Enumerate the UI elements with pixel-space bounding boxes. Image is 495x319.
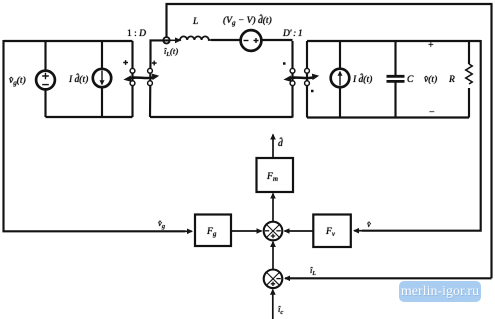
- label 1 : D: [127, 29, 146, 39]
- transformer T2 variable-ratio arrow: [283, 74, 319, 82]
- label dhat: [278, 136, 283, 149]
- label Fv: [325, 227, 336, 238]
- S1 minus sign left: [265, 230, 269, 232]
- svg-text:v̂(t): v̂(t): [424, 74, 437, 85]
- wire: dhat output arrow: [272, 135, 274, 159]
- svg-text:v̂g(t): v̂g(t): [9, 75, 26, 87]
- svg-text:d̂: d̂: [278, 136, 283, 149]
- label Fg: [206, 227, 217, 238]
- source (Vg - V) dhat(t): [211, 30, 293, 51]
- source v_g : independent voltage source vhat_g(t): [36, 41, 55, 117]
- wire: output top rail: [307, 40, 481, 42]
- wire: Fg output to summer S1: [231, 230, 262, 232]
- label (Vg - V) dhat(t): [223, 13, 272, 27]
- resistor R: [466, 41, 472, 118]
- wire + arrow after node: [170, 39, 181, 41]
- svg-text:I d̂(t): I d̂(t): [68, 72, 88, 85]
- label C: [407, 75, 414, 85]
- label I dhat(t): [68, 72, 88, 85]
- label vhat(t): [424, 74, 437, 85]
- T1 polarity marks: [123, 60, 156, 65]
- svg-text:I d̂(t): I d̂(t): [352, 72, 372, 85]
- label ihat_L: [310, 265, 316, 277]
- wire: vg sense arrow into Fg: [185, 230, 192, 232]
- label L: [192, 17, 198, 27]
- wire: iL feedback into S2: [285, 277, 492, 279]
- svg-text:R: R: [448, 75, 455, 85]
- svg-text:îc: îc: [278, 304, 283, 316]
- source I dhat(t) (output current source, arrow up): [331, 41, 350, 118]
- wire: vhat sense (right vertical to Fv): [362, 40, 481, 231]
- svg-text:îL: îL: [310, 265, 316, 277]
- S1 minus sign right: [276, 230, 280, 232]
- S2 plus sign bottom: [271, 282, 275, 286]
- label ihat_L(t): [164, 46, 178, 58]
- transformer T1 1:D secondary winding: [148, 40, 170, 117]
- capacitor C: [387, 41, 405, 118]
- watermark merlin-igor.ru: [399, 281, 481, 302]
- node iL with sense wire going up and across the top: [163, 4, 491, 278]
- wire: input top rail: [4, 40, 133, 42]
- transformer T2 D':1 secondary winding: [305, 41, 310, 118]
- svg-text:+: +: [428, 40, 434, 51]
- summer S2 (lower summing junction): [264, 270, 283, 289]
- wire: output bottom rail: [307, 116, 469, 118]
- transformer T1 1:D primary winding: [130, 41, 135, 117]
- wire: upper summer to Fm: [272, 194, 274, 223]
- inductor L: [178, 36, 211, 40]
- transformer T1 variable-ratio arrow: [123, 74, 159, 82]
- label I dhat(t) output: [352, 72, 372, 85]
- label ihat_c: [278, 304, 283, 316]
- svg-text:îL(t): îL(t): [164, 46, 178, 58]
- block Fm: [257, 158, 294, 192]
- T2 polarity marks: [283, 64, 314, 92]
- label vhat: [367, 219, 371, 229]
- transformer T2 D':1 primary winding: [290, 41, 295, 118]
- source I dhat(t) (input current source, arrow down): [93, 41, 111, 117]
- svg-text:−: −: [429, 107, 435, 118]
- wire: v_g sense wire (left vertical down to Fg input): [4, 40, 186, 231]
- svg-text:(Vg − V) d̂(t): (Vg − V) d̂(t): [223, 13, 272, 27]
- svg-text:L: L: [192, 17, 198, 27]
- summer S1 (upper summing junction): [264, 222, 283, 241]
- svg-text:1 : D: 1 : D: [127, 29, 146, 39]
- wire: Fv output to summer S1: [285, 230, 314, 232]
- output minus mark: [429, 107, 435, 118]
- wire: input bottom rail: [46, 116, 133, 118]
- wire: ihat_c input from bottom: [272, 290, 274, 319]
- output plus mark: [428, 40, 434, 51]
- svg-text:D′ : 1: D′ : 1: [282, 29, 302, 39]
- label R: [448, 75, 455, 85]
- label vhat_g(t): [9, 75, 26, 87]
- svg-text:v̂g: v̂g: [158, 218, 166, 230]
- wire: vhat arrow into Fv: [354, 230, 362, 232]
- label D' : 1: [282, 29, 302, 39]
- svg-text:v̂: v̂: [367, 219, 371, 229]
- S1 plus sign bottom: [271, 234, 275, 238]
- wire: lower summer to upper summer: [272, 242, 274, 269]
- block Fv: [313, 215, 351, 248]
- svg-text:C: C: [407, 75, 414, 85]
- label Fm: [266, 172, 278, 183]
- S2 minus sign right: [276, 278, 280, 280]
- label vhat_g: [158, 218, 166, 230]
- wire: secondary bottom rail: [150, 116, 293, 118]
- block Fg: [195, 215, 231, 247]
